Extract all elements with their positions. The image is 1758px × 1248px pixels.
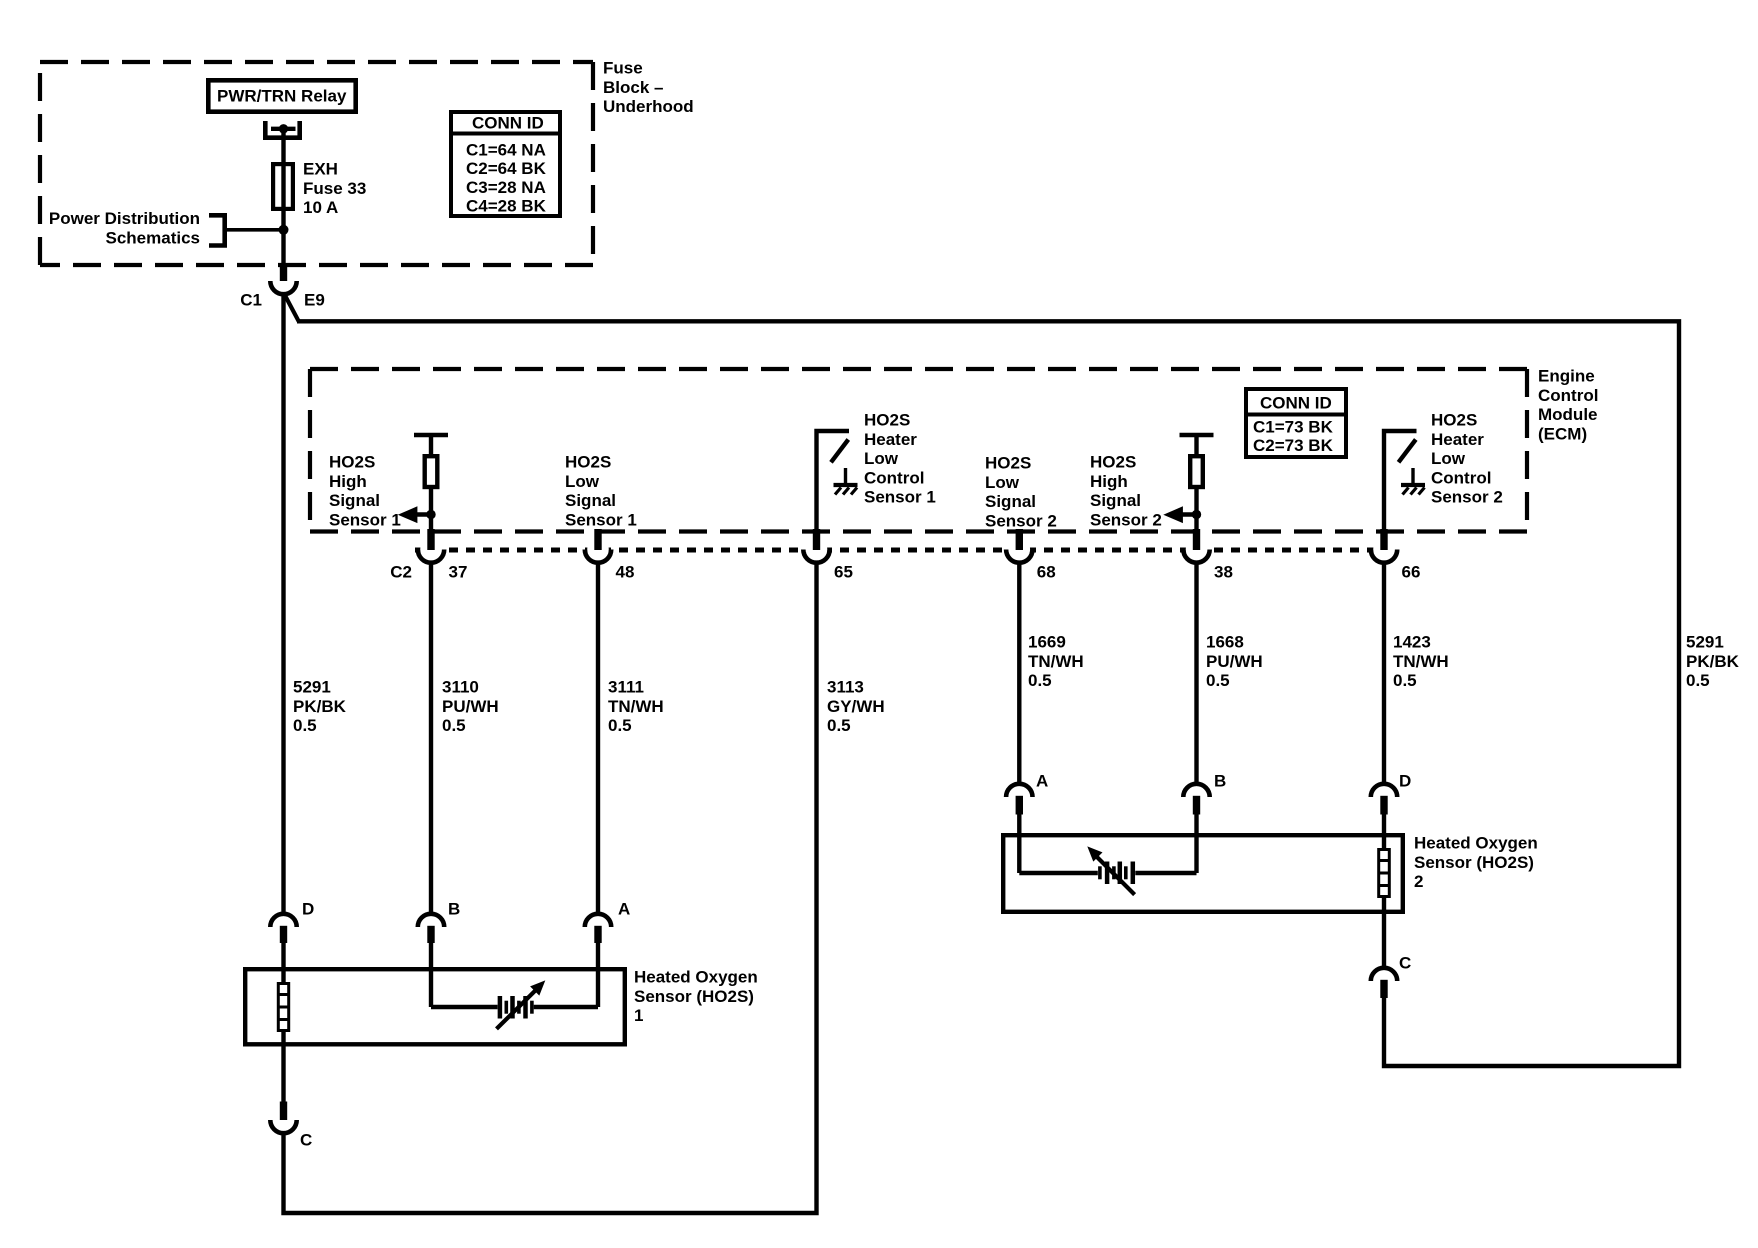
- svg-text:Low: Low: [864, 449, 899, 468]
- svg-text:1: 1: [634, 1006, 643, 1025]
- wire 5291 main vertical from C1 to HO2S-1 connector D: [281, 294, 285, 914]
- svg-text:HO2S: HO2S: [1431, 411, 1477, 430]
- resistor HO2S High Signal Sensor 2 top bar: [1180, 433, 1214, 437]
- variable arrow through heater HO2S-1: [497, 989, 537, 1029]
- svg-text:GY/WH: GY/WH: [827, 697, 885, 716]
- svg-text:Power Distribution: Power Distribution: [49, 209, 200, 228]
- svg-text:Sensor (HO2S): Sensor (HO2S): [634, 987, 754, 1006]
- svg-text:C1=64 NA: C1=64 NA: [466, 141, 546, 160]
- svg-text:Module: Module: [1538, 405, 1598, 424]
- svg-text:C2=73 BK: C2=73 BK: [1253, 436, 1334, 455]
- svg-text:TN/WH: TN/WH: [1028, 652, 1084, 671]
- svg-text:0.5: 0.5: [1686, 671, 1710, 690]
- svg-text:PWR/TRN Relay: PWR/TRN Relay: [217, 87, 347, 106]
- variable heater battery symbol in HO2S-1: [498, 996, 503, 1019]
- wire 3113 GY/WH pin 65 down, bottom loop to HO2S-1 C: [284, 563, 817, 1214]
- connector C1 pin E9 stub: [280, 266, 287, 281]
- svg-text:C2=64 BK: C2=64 BK: [466, 159, 547, 178]
- svg-text:D: D: [302, 900, 314, 919]
- svg-text:CONN ID: CONN ID: [472, 114, 544, 133]
- svg-text:HO2S: HO2S: [1090, 453, 1136, 472]
- svg-text:Sensor 2: Sensor 2: [1090, 510, 1162, 529]
- svg-text:Sensor 2: Sensor 2: [1431, 488, 1503, 507]
- resistor body: [425, 456, 438, 487]
- svg-text:PK/BK: PK/BK: [1686, 652, 1740, 671]
- svg-text:B: B: [448, 900, 460, 919]
- engine control module dashed box: [310, 367, 1527, 371]
- svg-text:38: 38: [1214, 563, 1233, 582]
- wire 3111 TN/WH pin 48 to HO2S-1 A: [596, 563, 600, 915]
- svg-text:C3=28 NA: C3=28 NA: [466, 178, 546, 197]
- wire into sensor box: [1017, 812, 1021, 834]
- ground symbol: [1411, 468, 1414, 484]
- svg-text:0.5: 0.5: [1393, 671, 1417, 690]
- wire top horizontal / right vertical 5291 PK/BK / bottom right horizontal to HO2S-2 C: [297, 321, 1679, 1066]
- wire A down to heater bus inside HO2S-1: [596, 967, 600, 1007]
- svg-text:C: C: [300, 1131, 312, 1150]
- ECM CONN ID table: [1246, 389, 1346, 457]
- variable heater battery symbol in HO2S-2: [1105, 862, 1110, 885]
- connector C1 cup: [270, 281, 296, 294]
- svg-text:Block –: Block –: [603, 78, 663, 97]
- svg-text:Sensor 1: Sensor 1: [864, 488, 936, 507]
- wire resistor to ECM pin: [1194, 489, 1198, 531]
- junction dot on signal wire: [1192, 510, 1201, 519]
- reference bracket: [209, 215, 225, 245]
- connector C below HO2S-2: [1371, 968, 1397, 981]
- svg-text:HO2S: HO2S: [329, 453, 375, 472]
- heater element cells on wire D in HO2S-2: [1379, 850, 1390, 897]
- svg-text:1423: 1423: [1393, 633, 1431, 652]
- wire 1668 PU/WH pin 38 to HO2S-2 B: [1194, 563, 1198, 785]
- svg-text:EXH: EXH: [303, 160, 338, 179]
- junction dot at fuse output: [279, 225, 289, 235]
- svg-text:Fuse 33: Fuse 33: [303, 179, 366, 198]
- svg-text:0.5: 0.5: [827, 716, 851, 735]
- wire resistor to ECM pin: [429, 489, 433, 531]
- relay contact bar with junction dot: [271, 127, 296, 131]
- svg-text:B: B: [1214, 772, 1226, 791]
- svg-text:3110: 3110: [442, 678, 479, 697]
- svg-text:Signal: Signal: [565, 491, 616, 510]
- driver switch HO2S Heater Low Control Sensor 1: [817, 431, 850, 531]
- connector B at HO2S-2: [1183, 784, 1209, 797]
- ECM connector dotted line: [415, 548, 1395, 553]
- svg-text:Signal: Signal: [1090, 491, 1141, 510]
- fuse block CONN ID table: [451, 112, 560, 216]
- signal arrow to label: [408, 512, 431, 517]
- svg-text:Control: Control: [864, 468, 924, 487]
- svg-text:Heater: Heater: [864, 430, 917, 449]
- svg-text:Engine: Engine: [1538, 367, 1595, 386]
- heated oxygen sensor 1 box: [245, 969, 625, 1044]
- svg-text:48: 48: [616, 563, 635, 582]
- connector B at HO2S-1: [418, 914, 444, 927]
- svg-text:Underhood: Underhood: [603, 97, 694, 116]
- svg-text:PU/WH: PU/WH: [442, 697, 499, 716]
- svg-text:PK/BK: PK/BK: [293, 697, 347, 716]
- wire bracket to junction: [225, 228, 284, 232]
- heater element cells on wire D in HO2S-1: [278, 984, 288, 1031]
- connector C below HO2S-1: [280, 1102, 287, 1121]
- svg-text:High: High: [1090, 472, 1128, 491]
- svg-text:Heated Oxygen: Heated Oxygen: [1414, 834, 1538, 853]
- svg-text:Sensor (HO2S): Sensor (HO2S): [1414, 853, 1534, 872]
- svg-text:PU/WH: PU/WH: [1206, 652, 1263, 671]
- svg-text:Signal: Signal: [329, 491, 380, 510]
- svg-text:37: 37: [449, 563, 468, 582]
- wire A down to heater bus inside HO2S-2: [1017, 833, 1021, 873]
- svg-text:68: 68: [1037, 563, 1056, 582]
- variable arrow through heater HO2S-2: [1095, 855, 1135, 895]
- svg-text:C1: C1: [240, 291, 262, 310]
- svg-text:C: C: [1399, 954, 1411, 973]
- switch blade: [831, 440, 848, 463]
- heated oxygen sensor 2 box: [1003, 835, 1403, 912]
- svg-text:C4=28 BK: C4=28 BK: [466, 197, 547, 216]
- svg-text:3113: 3113: [827, 678, 864, 697]
- ECM pin 68 connector: [1009, 539, 1031, 561]
- svg-text:TN/WH: TN/WH: [608, 697, 664, 716]
- junction dot on signal wire: [426, 510, 435, 519]
- svg-text:(ECM): (ECM): [1538, 424, 1587, 443]
- ECM pin 38 connector: [1186, 539, 1208, 561]
- wire D through HO2S-1 to connector C: [281, 967, 285, 1102]
- wire top bar to resistor: [1194, 435, 1198, 456]
- svg-text:Sensor 2: Sensor 2: [985, 511, 1057, 530]
- heater bus wire inside HO2S-2: [1019, 871, 1098, 875]
- relay K PWR/TRN Relay box: [208, 80, 355, 111]
- wire into sensor box: [429, 941, 433, 968]
- fuse block - underhood dashed box: [40, 60, 593, 64]
- connector A at HO2S-1: [585, 914, 611, 927]
- svg-text:A: A: [618, 900, 630, 919]
- svg-text:HO2S: HO2S: [864, 411, 910, 430]
- wire 1669 TN/WH pin 68 to HO2S-2 A: [1017, 563, 1021, 785]
- svg-text:HO2S: HO2S: [985, 454, 1031, 473]
- svg-text:1669: 1669: [1028, 633, 1066, 652]
- svg-text:0.5: 0.5: [608, 716, 632, 735]
- svg-text:Low: Low: [565, 472, 600, 491]
- switch blade: [1399, 440, 1416, 463]
- heater bus wire inside HO2S-1: [431, 1005, 498, 1009]
- fuse F33 body: [273, 164, 293, 209]
- svg-text:TN/WH: TN/WH: [1393, 652, 1449, 671]
- svg-text:Signal: Signal: [985, 492, 1036, 511]
- svg-text:Schematics: Schematics: [106, 228, 201, 247]
- svg-text:Low: Low: [985, 473, 1020, 492]
- wire B down to heater bus inside HO2S-1: [429, 967, 433, 1007]
- ECM pin 48 connector: [587, 539, 609, 561]
- svg-text:Heated Oxygen: Heated Oxygen: [634, 968, 758, 987]
- svg-text:0.5: 0.5: [1206, 671, 1230, 690]
- svg-text:D: D: [1399, 772, 1411, 791]
- wire relay through fuse to junction and C1: [281, 129, 285, 267]
- svg-text:High: High: [329, 472, 367, 491]
- svg-text:C2: C2: [390, 563, 412, 582]
- wire into sensor box: [1194, 812, 1198, 834]
- svg-text:HO2S: HO2S: [565, 453, 611, 472]
- resistor body: [1190, 456, 1203, 487]
- svg-text:1668: 1668: [1206, 633, 1244, 652]
- connector D at HO2S-2: [1371, 784, 1397, 797]
- wire 1423 TN/WH pin 66 to HO2S-2 D: [1382, 563, 1386, 785]
- svg-text:Heater: Heater: [1431, 430, 1484, 449]
- svg-text:3111: 3111: [608, 678, 644, 697]
- svg-text:Fuse: Fuse: [603, 59, 643, 78]
- svg-text:Control: Control: [1431, 468, 1491, 487]
- svg-text:Sensor 1: Sensor 1: [329, 510, 401, 529]
- ECM pin 37 connector: [420, 539, 442, 561]
- svg-text:66: 66: [1402, 563, 1421, 582]
- svg-text:10 A: 10 A: [303, 198, 338, 217]
- svg-text:2: 2: [1414, 872, 1423, 891]
- svg-text:Sensor 1: Sensor 1: [565, 510, 637, 529]
- wire B down to heater bus inside HO2S-2: [1194, 833, 1198, 873]
- svg-text:Low: Low: [1431, 449, 1466, 468]
- wire into sensor box: [596, 941, 600, 968]
- connector D at HO2S-1: [270, 914, 296, 927]
- wire top bar to resistor: [429, 435, 433, 456]
- resistor HO2S High Signal Sensor 1 top bar: [414, 433, 448, 437]
- wire into sensor box: [1382, 812, 1386, 834]
- ground symbol: [844, 468, 847, 484]
- svg-text:0.5: 0.5: [1028, 671, 1052, 690]
- ECM pin 65 connector: [806, 539, 828, 561]
- svg-text:0.5: 0.5: [442, 716, 466, 735]
- svg-text:E9: E9: [304, 291, 325, 310]
- ECM pin 66 connector: [1373, 539, 1395, 561]
- relay output terminal cup: [265, 121, 299, 138]
- driver switch HO2S Heater Low Control Sensor 2: [1384, 431, 1417, 531]
- svg-text:65: 65: [834, 563, 853, 582]
- wire into sensor box: [281, 941, 285, 968]
- svg-text:0.5: 0.5: [293, 716, 317, 735]
- svg-text:A: A: [1036, 772, 1048, 791]
- svg-text:Control: Control: [1538, 386, 1598, 405]
- wire D through HO2S-2 to connector C: [1382, 833, 1386, 969]
- wire E9 diagonal branch: [285, 295, 299, 322]
- signal arrow to label: [1174, 512, 1197, 517]
- connector A at HO2S-2: [1006, 784, 1032, 797]
- svg-text:C1=73 BK: C1=73 BK: [1253, 417, 1334, 436]
- svg-text:CONN ID: CONN ID: [1260, 394, 1332, 413]
- svg-text:5291: 5291: [293, 678, 331, 697]
- wire 3110 PU/WH pin 37 to HO2S-1 B: [429, 563, 433, 915]
- svg-text:5291: 5291: [1686, 633, 1724, 652]
